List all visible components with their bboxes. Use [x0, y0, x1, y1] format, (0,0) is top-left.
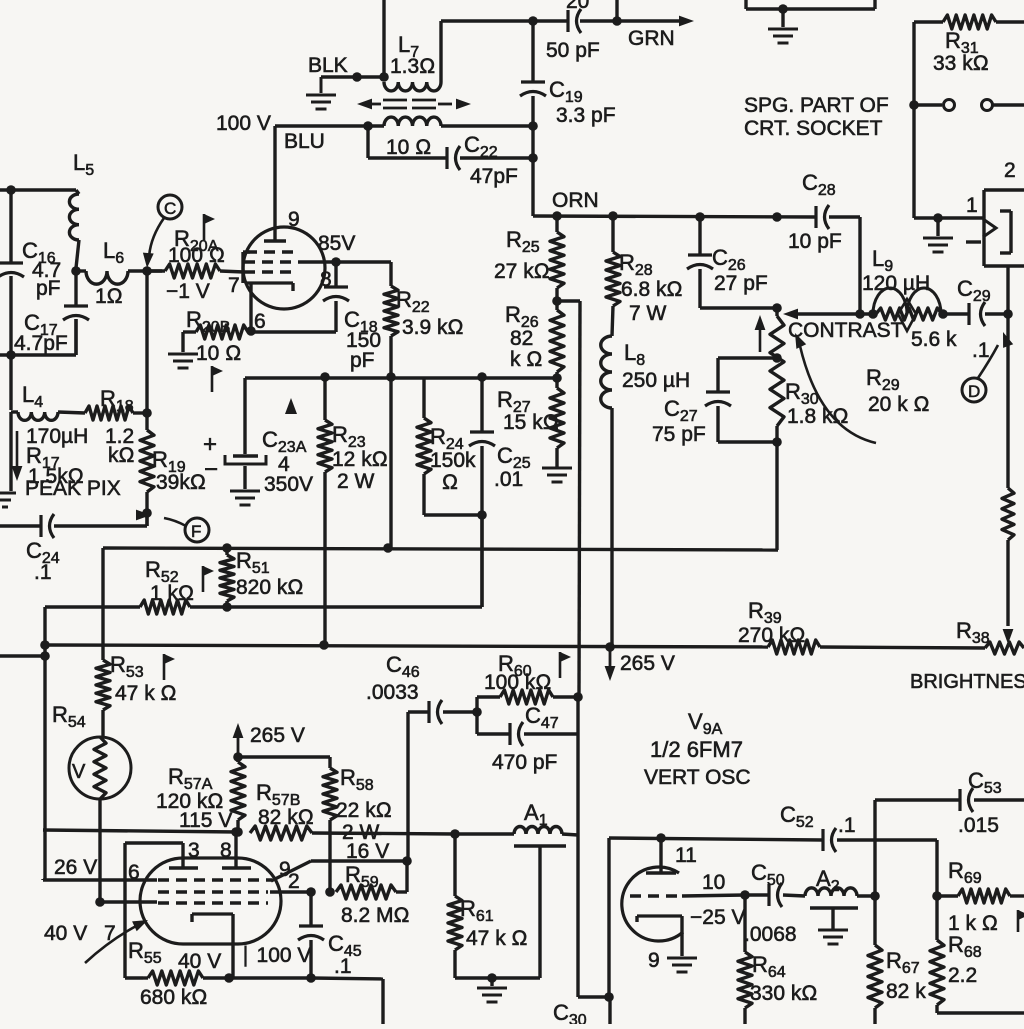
label 265V	[620, 652, 675, 675]
svg-text:9: 9	[648, 949, 660, 972]
node	[933, 213, 943, 223]
resistor R53	[96, 548, 110, 710]
wire	[227, 515, 482, 607]
wire	[43, 607, 46, 879]
node	[224, 973, 234, 983]
wire bus377	[245, 376, 557, 379]
label R39	[738, 598, 806, 647]
resistor R29	[876, 308, 942, 320]
node	[1003, 309, 1013, 319]
label L5	[73, 150, 94, 179]
svg-text:16 V: 16 V	[346, 840, 389, 863]
arrow GRN	[580, 16, 694, 27]
inductor A2	[805, 888, 875, 896]
wire 26V	[43, 879, 157, 880]
label R23	[332, 422, 388, 493]
wire	[54, 513, 147, 526]
resistor R31	[914, 15, 1024, 29]
svg-text:.0068: .0068	[744, 923, 797, 946]
wire	[389, 377, 392, 548]
node	[450, 829, 460, 839]
label 26V	[54, 856, 97, 879]
svg-text:C: C	[164, 199, 176, 218]
label C29	[957, 276, 991, 362]
capacitor C19	[520, 21, 546, 216]
node	[870, 891, 880, 901]
node	[363, 121, 373, 131]
label pin11	[675, 844, 697, 867]
svg-text:ORN: ORN	[552, 189, 599, 212]
svg-text:.1: .1	[838, 814, 856, 837]
wire	[746, 0, 875, 9]
wire contrast	[793, 312, 873, 315]
svg-text:SPG. PART OF: SPG. PART OF	[744, 94, 889, 117]
arrow wiper up	[755, 315, 766, 352]
resistor R59	[336, 885, 407, 899]
svg-text:10 Ω: 10 Ω	[196, 342, 241, 365]
svg-text:1.3Ω: 1.3Ω	[390, 55, 435, 78]
node	[142, 508, 152, 518]
ground	[306, 77, 336, 109]
node	[379, 72, 389, 82]
resistor R27	[550, 378, 564, 467]
svg-text:265 V: 265 V	[250, 724, 305, 747]
svg-text:120 µH: 120 µH	[862, 272, 930, 295]
svg-text:.0033: .0033	[366, 681, 419, 704]
flag	[164, 654, 175, 680]
capacitor C24	[41, 514, 54, 538]
wire	[441, 21, 533, 82]
svg-text:27 kΩ: 27 kΩ	[494, 260, 550, 283]
label pin6	[254, 310, 266, 333]
svg-text:33 kΩ: 33 kΩ	[933, 52, 989, 75]
svg-text:1.8 kΩ: 1.8 kΩ	[787, 405, 849, 428]
label C16	[22, 238, 61, 300]
node	[306, 973, 316, 983]
label C17	[14, 310, 68, 355]
svg-text:1/2 6FM7: 1/2 6FM7	[650, 737, 743, 762]
svg-text:F: F	[191, 522, 201, 541]
inductor A1	[455, 827, 578, 835]
arrow wiper R38	[1003, 629, 1014, 644]
tube V9B envelope	[622, 867, 683, 941]
wire	[460, 156, 533, 159]
resistor R20B	[183, 325, 248, 339]
ground	[477, 978, 507, 1002]
inductor 10ohm	[384, 117, 441, 126]
node	[772, 303, 782, 313]
label C26	[712, 245, 768, 295]
label pin2	[1004, 159, 1016, 182]
ground	[768, 9, 798, 43]
node	[233, 827, 243, 837]
label BLK	[308, 54, 348, 77]
svg-text:6: 6	[254, 310, 266, 333]
svg-text:.1: .1	[972, 339, 990, 362]
node	[386, 372, 396, 382]
label R54	[52, 702, 86, 731]
pin3 plate	[169, 843, 198, 868]
svg-text:82 k: 82 k	[886, 980, 926, 1003]
inductor L4	[11, 412, 85, 420]
slug A2	[810, 908, 858, 929]
wire	[914, 216, 983, 219]
svg-text:2 W: 2 W	[337, 470, 375, 493]
label C30	[553, 1000, 587, 1029]
flag	[203, 566, 214, 592]
wire	[0, 188, 76, 191]
resistor R38 body	[985, 642, 1024, 654]
grid cage V8	[243, 252, 250, 283]
svg-text:330 kΩ: 330 kΩ	[750, 982, 818, 1005]
resistor R60	[477, 690, 578, 712]
label pin9	[288, 208, 300, 231]
wire BLK	[321, 75, 384, 78]
svg-text:BRIGHTNESS: BRIGHTNESS	[910, 671, 1024, 693]
node	[772, 353, 782, 363]
svg-text:−: −	[204, 456, 218, 483]
ground	[168, 332, 198, 368]
arrow 265V	[605, 651, 616, 681]
label R38	[956, 618, 990, 647]
wire pin10	[682, 895, 745, 896]
svg-text:100 Ω: 100 Ω	[168, 244, 225, 267]
wire pin6	[251, 330, 336, 333]
label 85V	[318, 232, 355, 255]
capacitor C26	[687, 217, 777, 308]
wire R17 branch	[9, 412, 12, 491]
wire	[783, 895, 805, 896]
node	[695, 212, 705, 222]
svg-text:250 µH: 250 µH	[622, 369, 690, 392]
svg-text:2: 2	[1004, 159, 1016, 182]
label R58	[336, 765, 392, 844]
ground	[923, 218, 953, 252]
label A1	[524, 800, 548, 829]
svg-text:100 V: 100 V	[216, 112, 271, 135]
node	[552, 373, 562, 383]
label R20B	[186, 307, 241, 365]
node	[605, 642, 615, 652]
svg-text:1: 1	[966, 194, 978, 217]
svg-text:k Ω: k Ω	[510, 348, 542, 371]
label R31	[933, 28, 989, 75]
svg-text:BLK: BLK	[308, 54, 348, 77]
svg-text:100 kΩ: 100 kΩ	[484, 671, 552, 694]
capacitor C52	[823, 828, 836, 852]
node	[233, 752, 243, 762]
tube V8 envelope	[243, 227, 325, 309]
wire	[985, 312, 1008, 315]
svg-text:.1: .1	[34, 561, 52, 584]
resistor R26	[550, 301, 564, 378]
label C47	[492, 703, 559, 774]
node	[528, 153, 538, 163]
capacitor C46	[408, 700, 477, 724]
wire	[837, 840, 937, 896]
node	[868, 309, 878, 319]
label 115V	[179, 809, 232, 832]
resistor R57A	[231, 757, 245, 833]
capacitor C27	[705, 358, 777, 442]
svg-text:2.2: 2.2	[948, 964, 977, 987]
label C50	[744, 860, 797, 946]
label R30	[785, 379, 849, 428]
inductor L7	[384, 82, 441, 91]
wire	[576, 734, 579, 835]
label pin10	[702, 871, 725, 894]
inductor L6	[76, 271, 162, 284]
capacitor C47	[477, 697, 578, 746]
svg-text:.015: .015	[958, 814, 999, 837]
wire C24	[0, 524, 41, 527]
pointer C	[143, 195, 182, 268]
ground	[818, 930, 848, 944]
label 100V	[236, 944, 311, 967]
svg-text:270 kΩ: 270 kΩ	[738, 624, 806, 647]
label pin8	[220, 839, 232, 862]
label pin8	[320, 268, 332, 291]
resistor R52	[140, 600, 227, 614]
resistor R51	[220, 548, 234, 607]
svg-text:kΩ: kΩ	[108, 444, 135, 467]
wire ORN	[533, 216, 816, 217]
pin8 plate	[222, 832, 251, 868]
arrow 265V feed	[233, 723, 244, 757]
inductor L9	[873, 288, 941, 314]
label L6	[95, 238, 124, 308]
resistor R67	[868, 896, 882, 1024]
label BRIGHTNESS	[910, 671, 1024, 693]
svg-text:9: 9	[279, 858, 291, 881]
wire	[382, 0, 385, 77]
wire	[406, 712, 409, 861]
node	[352, 72, 362, 82]
wire R52 line	[45, 605, 140, 608]
svg-text:150k: 150k	[430, 449, 476, 472]
resistor R19	[140, 413, 154, 526]
label C53	[958, 768, 1002, 837]
inductor L8	[601, 306, 613, 647]
node	[231, 827, 241, 837]
resistor R28	[606, 216, 620, 306]
svg-text:BLU: BLU	[284, 130, 325, 153]
label SPG	[744, 94, 889, 140]
node	[40, 640, 50, 650]
node	[552, 296, 562, 306]
label R52	[145, 557, 194, 605]
svg-text:40 V: 40 V	[178, 950, 221, 973]
label R68	[948, 932, 982, 987]
node	[222, 602, 232, 612]
wire 115V right	[609, 838, 823, 840]
svg-text:27 pF: 27 pF	[714, 272, 768, 295]
resistor R30	[770, 308, 784, 550]
capacitor C23A	[225, 378, 266, 489]
capacitor C22	[447, 146, 460, 170]
node	[573, 692, 583, 702]
label R57A	[156, 764, 224, 813]
label L7	[390, 32, 435, 78]
wire	[238, 755, 330, 758]
label R53	[110, 652, 177, 705]
label L9	[862, 246, 930, 295]
svg-text:11: 11	[675, 844, 697, 867]
wire bus265	[45, 645, 768, 647]
svg-text:680 kΩ: 680 kΩ	[140, 986, 208, 1009]
resistor R25	[550, 216, 564, 301]
capacitor C25	[469, 377, 495, 607]
label pin1	[966, 194, 978, 217]
label R59	[341, 862, 410, 927]
svg-text:7: 7	[228, 274, 240, 297]
svg-text:Ω: Ω	[442, 471, 458, 494]
label -25V	[690, 906, 745, 929]
node	[487, 973, 497, 983]
svg-text:82: 82	[510, 327, 533, 350]
label L4	[22, 382, 88, 448]
wire	[229, 976, 311, 979]
label 265V	[250, 724, 305, 747]
label 40V	[44, 922, 116, 945]
label R26	[505, 302, 542, 371]
label 50pF	[546, 39, 600, 62]
plate V8	[264, 239, 286, 242]
svg-text:−1 V: −1 V	[166, 280, 210, 303]
label R27	[497, 387, 559, 434]
node	[6, 185, 16, 195]
label C18	[344, 307, 381, 372]
wire	[441, 124, 533, 127]
svg-text:47 k Ω: 47 k Ω	[466, 927, 528, 950]
label L8	[622, 340, 690, 392]
svg-text:pF: pF	[350, 349, 375, 372]
pin3 box	[125, 843, 183, 978]
resistor R38 upper	[1002, 488, 1014, 626]
svg-text:−25 V: −25 V	[690, 906, 745, 929]
CRT socket contacts	[966, 190, 1024, 266]
svg-text:10 pF: 10 pF	[788, 230, 842, 253]
arrow R17	[12, 431, 23, 481]
wire pin2	[270, 890, 311, 893]
label R28	[619, 250, 683, 325]
svg-text:20 k Ω: 20 k Ω	[868, 393, 930, 416]
node	[477, 510, 487, 520]
wire	[98, 799, 101, 901]
grid rows V8	[244, 252, 302, 272]
wire pin9	[271, 861, 407, 892]
ground	[0, 493, 16, 507]
svg-text:3: 3	[188, 839, 200, 862]
resistor R64	[738, 895, 752, 1024]
label R61	[460, 896, 528, 950]
label pin2	[288, 870, 300, 893]
node	[402, 856, 412, 866]
node	[383, 543, 393, 553]
label C20	[566, 0, 589, 13]
pointer D	[962, 332, 1013, 402]
node	[909, 100, 919, 110]
inductor L5	[69, 190, 79, 268]
svg-text:V: V	[72, 761, 86, 783]
svg-text:26 V: 26 V	[54, 856, 97, 879]
node	[142, 266, 152, 276]
node	[612, 16, 622, 26]
resistor R68	[930, 896, 1024, 1013]
label BLU	[284, 130, 325, 153]
capacitor C28	[816, 205, 829, 229]
cathode V9A	[192, 914, 233, 978]
svg-text:1 k Ω: 1 k Ω	[948, 912, 998, 935]
ground	[667, 958, 697, 972]
svg-text:265 V: 265 V	[620, 652, 675, 675]
wire	[829, 217, 860, 314]
label C28	[788, 170, 842, 253]
label pin7	[228, 274, 240, 297]
svg-text:39kΩ: 39kΩ	[156, 471, 206, 494]
label pin6	[128, 861, 140, 884]
node	[306, 887, 316, 897]
pointer F	[136, 510, 209, 542]
label 10ohm	[386, 136, 431, 159]
node	[95, 897, 105, 907]
svg-text:3.3 pF: 3.3 pF	[556, 104, 616, 127]
pin11	[646, 838, 676, 873]
wire	[9, 355, 12, 410]
node	[528, 16, 538, 26]
cathode V8	[245, 283, 293, 330]
resistor R18	[85, 406, 147, 420]
node	[932, 891, 942, 901]
capacitor C20	[568, 9, 581, 33]
label R57B	[256, 780, 314, 829]
svg-text:3.9 kΩ: 3.9 kΩ	[402, 316, 464, 339]
wiper diamond	[898, 299, 916, 331]
label C19	[549, 77, 616, 127]
node	[778, 4, 788, 14]
node	[604, 992, 614, 1002]
tube V9A envelope	[140, 858, 281, 944]
wire	[578, 995, 609, 998]
node	[319, 640, 329, 650]
svg-text:CONTRAST: CONTRAST	[788, 319, 904, 342]
label CONTRAST	[788, 319, 904, 342]
svg-text:6.8 kΩ: 6.8 kΩ	[621, 278, 683, 301]
svg-text:9: 9	[288, 208, 300, 231]
grid V9B	[630, 894, 678, 897]
wire x578 column	[579, 301, 580, 697]
label R25	[494, 227, 550, 283]
node	[656, 833, 666, 843]
svg-text:15 kΩ: 15 kΩ	[503, 411, 559, 434]
label C23A	[203, 427, 313, 496]
label R20A	[166, 226, 225, 303]
flag	[204, 214, 215, 240]
capacitor C53	[875, 788, 1024, 896]
label R69	[948, 858, 998, 935]
wire	[608, 997, 611, 1024]
resistor R23	[318, 377, 332, 645]
label 16V	[346, 840, 389, 863]
svg-text:47pF: 47pF	[470, 165, 518, 188]
wire	[311, 978, 383, 1024]
ground	[230, 491, 260, 505]
label R29	[866, 365, 930, 416]
arrow wiper R30	[783, 309, 798, 320]
flag	[212, 366, 223, 392]
svg-text:350V: 350V	[264, 473, 313, 496]
label R51	[236, 548, 304, 599]
